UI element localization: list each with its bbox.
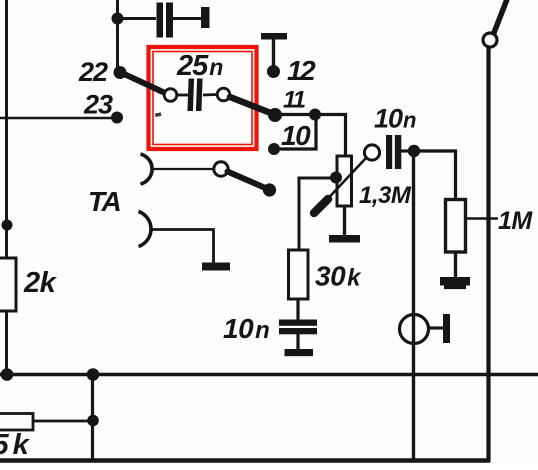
node 10 dot bbox=[268, 143, 280, 155]
wire: arc1 to pivot bbox=[152, 168, 214, 170]
jack wire bbox=[428, 326, 444, 329]
svg-text:22: 22 bbox=[78, 57, 108, 87]
resistor 30k body bbox=[289, 250, 309, 299]
node 23 dot bbox=[111, 112, 123, 124]
wire: vertical through jack to bottom bbox=[412, 151, 415, 461]
svg-text:25n: 25n bbox=[176, 50, 223, 82]
wire: 30k to cap bbox=[296, 299, 299, 321]
capacitor C 10n top (plates and wires) bbox=[386, 135, 414, 169]
wire: arc2 to ground bbox=[151, 230, 214, 264]
svg-text:23: 23 bbox=[83, 90, 113, 120]
wire: switch arm right contact to node 11 bbox=[230, 97, 272, 114]
svg-text:2k: 2k bbox=[23, 267, 58, 299]
terminal: pin bar top bbox=[201, 7, 210, 28]
resistor 2k body bbox=[0, 258, 16, 311]
node: dot 5k junction bbox=[87, 415, 99, 427]
wire: vertical x92 bbox=[91, 374, 94, 461]
node: junction dot top bbox=[112, 13, 124, 25]
wire: pot left to 30k top bbox=[299, 178, 336, 250]
wire: node 23 horizontal bbox=[0, 117, 117, 120]
jack terminal bar bbox=[443, 314, 450, 343]
wire: bottom edge line bbox=[0, 458, 490, 462]
wire: switch arm node22 to left contact bbox=[122, 73, 164, 93]
svg-text:12: 12 bbox=[287, 55, 316, 86]
node: dot left bus bottom bbox=[1, 368, 14, 381]
node 11 dot bbox=[268, 108, 282, 122]
connector circle top-right bbox=[483, 33, 497, 47]
svg-text:TA: TA bbox=[88, 186, 121, 217]
capacitor C 25n (plates and wires) bbox=[177, 79, 217, 112]
ground: bottom cap bbox=[285, 349, 314, 356]
wire: top-left vertical bbox=[116, 0, 119, 71]
switch contact arc 2 bbox=[139, 212, 152, 247]
switch contact circle left bbox=[164, 89, 177, 102]
wire: left vertical bus bbox=[5, 0, 8, 375]
wire: top-right diagonal bbox=[494, 0, 508, 34]
connector circle (pot wiper) bbox=[364, 145, 379, 160]
wire: cap to ground bbox=[296, 334, 299, 350]
wire: bottom bus bbox=[0, 373, 538, 377]
highlight box (red, inner) bbox=[153, 52, 252, 145]
highlight box (red, outer) bbox=[149, 47, 257, 149]
wire: 5k to vertical bbox=[30, 420, 93, 423]
ground: below pot bbox=[329, 235, 360, 243]
node: dot bus x92 bbox=[87, 368, 100, 381]
terminal 12 bbox=[261, 33, 287, 78]
potentiometer 1,3M body bbox=[337, 156, 352, 206]
svg-text:5k: 5k bbox=[0, 429, 31, 461]
node 22 dot bbox=[114, 66, 127, 79]
capacitor C top (plates and wires) bbox=[117, 3, 201, 38]
switch contact circle right bbox=[217, 88, 230, 101]
switch arm (moving) bbox=[228, 172, 277, 197]
node: junction dot on left bus bbox=[2, 220, 13, 231]
svg-text:11: 11 bbox=[283, 87, 306, 114]
node: dot on pot left edge bbox=[330, 172, 342, 184]
capacitor 10n bottom (plates) bbox=[279, 320, 317, 335]
switch pivot circle bbox=[214, 162, 228, 176]
svg-text:10: 10 bbox=[281, 120, 311, 151]
svg-text:1M: 1M bbox=[498, 207, 533, 235]
svg-text:1,3M: 1,3M bbox=[359, 182, 412, 209]
resistor 1M body bbox=[446, 200, 466, 253]
wire: below 1M bbox=[454, 252, 457, 278]
ink speck inside box bbox=[155, 112, 162, 117]
node: junction dot right of 11 bbox=[309, 109, 321, 121]
wire: cap node to 1M resistor bbox=[414, 151, 456, 200]
svg-text:30k: 30k bbox=[315, 261, 362, 292]
svg-text:10n: 10n bbox=[223, 313, 269, 344]
resistor 5k body bbox=[0, 414, 33, 431]
leader line 1M bbox=[466, 217, 498, 220]
switch contact arc 1 bbox=[141, 154, 153, 184]
jack circle bbox=[400, 315, 429, 344]
wire: pot bottom to ground bbox=[343, 207, 346, 236]
potentiometer arrow bbox=[314, 158, 367, 214]
node: dot after 10n cap bbox=[408, 145, 420, 157]
svg-text:10n: 10n bbox=[374, 104, 416, 134]
wire: node11 to pot top bbox=[275, 115, 346, 157]
wire: node 10 loop bbox=[274, 115, 316, 149]
wire: right vertical bus bbox=[486, 46, 490, 462]
ground: arc2 bbox=[202, 263, 230, 271]
ground: below 1M bbox=[440, 277, 470, 286]
